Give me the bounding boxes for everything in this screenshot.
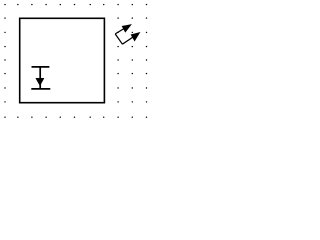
component body box (20, 18, 105, 102)
diode D1 anode lead wire (39, 67, 41, 89)
light arrow 2 head (131, 33, 139, 41)
light arrows baseline (115, 34, 122, 44)
diode D1 cathode bar (31, 88, 50, 90)
diode D1 triangle (36, 78, 44, 85)
diode D1 top terminal bar (32, 66, 50, 68)
light arrow 1 shaft (115, 27, 127, 34)
light arrow 1 head (122, 25, 131, 32)
light arrow 2 shaft (122, 35, 135, 44)
